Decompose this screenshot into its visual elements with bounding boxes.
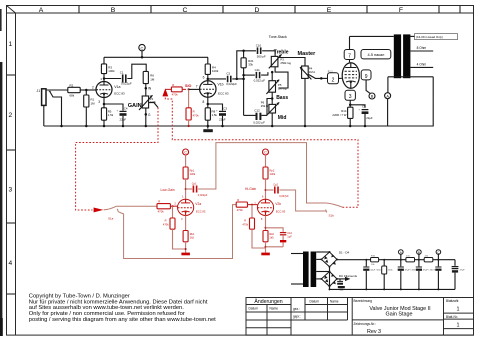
svg-text:R: R	[237, 198, 239, 202]
filter cap node B	[416, 260, 436, 291]
node C supply hi gain	[263, 149, 269, 167]
input jack J1	[37, 89, 47, 106]
svg-text:3: 3	[349, 94, 352, 100]
dropping resistor B-C	[424, 258, 433, 262]
svg-text:R: R	[172, 83, 174, 87]
svg-text:C: C	[264, 151, 267, 155]
svg-text:4-5 накал: 4-5 накал	[367, 53, 384, 57]
filter cap node A	[398, 260, 418, 291]
potentiometer Treble P3 250k log	[269, 54, 292, 68]
supply rail preamp	[104, 56, 208, 58]
svg-text:C5: C5	[362, 105, 366, 109]
resistor R4 100k	[205, 57, 219, 74]
svg-text:Blattzahl:: Blattzahl:	[446, 299, 459, 303]
svg-text:0,022µF: 0,022µF	[121, 82, 132, 86]
svg-text:9: 9	[365, 74, 368, 80]
red grid resistor hi gain 470k	[236, 198, 257, 212]
svg-text:Rp2: Rp2	[270, 168, 275, 172]
svg-text:Datum: Datum	[310, 300, 320, 304]
svg-text:7: 7	[196, 85, 198, 89]
svg-text:1M A: 1M A	[309, 70, 316, 74]
svg-text:Cp2: Cp2	[273, 182, 278, 186]
svg-text:Rk1: Rk1	[190, 232, 195, 236]
svg-text:R2: R2	[70, 83, 74, 87]
svg-text:Datum: Datum	[249, 307, 259, 311]
resistor R1 1M	[84, 90, 95, 126]
resistor R2 68k	[68, 83, 80, 97]
wire mid to ground	[271, 113, 273, 126]
svg-text:SIO: SIO	[185, 84, 191, 88]
capacitor C5 22uF cathode bypass	[350, 105, 373, 126]
svg-text:V1b: V1b	[218, 83, 224, 87]
secondary HV leads	[316, 251, 329, 253]
node B	[369, 93, 375, 99]
node IN	[145, 84, 147, 96]
svg-text:C2: C2	[226, 72, 230, 76]
dashed wire S1b output back to V1b grid	[165, 96, 358, 207]
red input arrow S1a	[94, 208, 104, 213]
svg-text:470k: 470k	[172, 93, 179, 97]
svg-text:33k: 33k	[248, 63, 253, 67]
resistor R5 1,5k cathode V1a	[101, 108, 113, 126]
resistor R8 1,5k cathode V1b	[205, 108, 217, 126]
svg-text:R: R	[244, 219, 246, 223]
svg-text:Blatt-Nr.:: Blatt-Nr.:	[446, 315, 459, 319]
svg-text:0,022 µF: 0,022 µF	[253, 121, 265, 125]
svg-text:470k: 470k	[193, 113, 200, 117]
svg-text:47µF: 47µF	[460, 270, 466, 272]
output transformer secondary winding	[403, 34, 410, 78]
svg-text:2: 2	[92, 85, 94, 89]
4 ohm tap	[410, 62, 433, 67]
svg-text:Rp1: Rp1	[190, 168, 195, 172]
red cathode resistor Rk1 1k5	[183, 216, 195, 253]
potentiometer Bass P5 1M log	[266, 80, 286, 94]
svg-text:Name: Name	[330, 300, 339, 304]
title block	[246, 298, 474, 336]
svg-text:F: F	[399, 7, 403, 14]
wire Rk2 to Ck2 bottom joint	[266, 246, 284, 248]
red coupling cap Cp1	[186, 181, 208, 196]
svg-text:Änderungen: Änderungen	[254, 298, 282, 305]
pin box 9 screen EL84	[358, 70, 371, 80]
triode V1a	[96, 82, 112, 98]
svg-text:ECC 83: ECC 83	[196, 210, 206, 214]
svg-text:GAIN: GAIN	[128, 103, 142, 109]
capacitor C11 0.022uF	[254, 68, 266, 83]
svg-text:gez.:: gez.:	[293, 307, 300, 311]
svg-text:Name: Name	[270, 307, 279, 311]
triode V2a 12AX7 low gain	[178, 199, 194, 215]
wire to C3	[208, 104, 223, 111]
svg-text:47µF / 450 V: 47µF / 450 V	[423, 270, 436, 272]
svg-text:ECC 83: ECC 83	[276, 210, 286, 214]
svg-text:1k5: 1k5	[269, 235, 274, 239]
svg-text:6: 6	[203, 76, 205, 80]
svg-text:C1: C1	[120, 70, 124, 74]
svg-text:DC Filaments: DC Filaments	[339, 274, 358, 278]
svg-text:100k: 100k	[212, 69, 219, 73]
svg-text:1,5k: 1,5k	[212, 113, 218, 117]
red ground low gain	[181, 253, 190, 256]
svg-text:C10: C10	[256, 43, 262, 47]
svg-text:Ck2: Ck2	[287, 231, 292, 235]
tone stack left rail	[237, 78, 244, 80]
resistor R21 33k	[241, 58, 254, 68]
PSU ground rail	[330, 288, 456, 290]
svg-text:470k: 470k	[242, 222, 248, 226]
chassis ground symbol under V1b	[203, 126, 213, 132]
frame column ticks	[79, 6, 460, 14]
svg-text:7: 7	[348, 53, 351, 59]
wire master bottom to ground	[304, 78, 306, 126]
svg-text:100k: 100k	[190, 172, 196, 176]
svg-text:22µF: 22µF	[120, 118, 127, 122]
svg-text:220R / 7 W: 220R / 7 W	[332, 113, 346, 117]
svg-text:0,022µF: 0,022µF	[226, 82, 237, 86]
potentiometer GAIN P2	[139, 95, 156, 110]
filter cap node C	[435, 260, 441, 291]
junction	[60, 125, 63, 128]
svg-text:100k: 100k	[108, 69, 115, 73]
svg-text:A: A	[39, 7, 44, 14]
capacitor C2 0.022uF	[226, 72, 237, 87]
svg-text:470k: 470k	[237, 208, 244, 212]
svg-text:1M log: 1M log	[278, 86, 287, 90]
wire S1a to low gain grid resistor	[116, 205, 157, 207]
cathode node V1b	[207, 97, 209, 108]
node A supply	[399, 250, 404, 261]
potentiometer Mid P6 25k lin	[261, 100, 279, 115]
svg-text:25k lin: 25k lin	[261, 104, 270, 108]
smoothing resistor R15	[371, 256, 379, 266]
red grid leak hi gain 470k	[242, 205, 265, 248]
resistor R14 220R/7W	[332, 107, 353, 126]
red return arrow into V1b grid	[162, 88, 168, 96]
svg-text:1,5k: 1,5k	[108, 113, 114, 117]
svg-text:68k: 68k	[70, 93, 75, 97]
svg-text:0,022 µF: 0,022 µF	[254, 79, 266, 83]
switch S1b	[326, 203, 343, 217]
wire jack tip to R2	[46, 89, 68, 91]
svg-text:2: 2	[332, 78, 335, 84]
svg-text:0,022µF: 0,022µF	[198, 193, 208, 197]
mains transformer winding 2	[311, 252, 317, 288]
svg-text:Master: Master	[298, 51, 317, 57]
svg-text:V2a: V2a	[195, 202, 201, 206]
pin box 3 cathode EL84	[345, 90, 355, 107]
red bypass cap Ck2	[266, 228, 293, 243]
svg-text:1µF: 1µF	[287, 234, 292, 238]
svg-text:R: R	[165, 219, 167, 223]
svg-text:S1a: S1a	[108, 217, 114, 221]
svg-text:B: B	[371, 95, 374, 99]
wire Cp1 to S1b throw1	[198, 143, 326, 203]
red coupling cap Cp2	[266, 182, 290, 197]
treble wiper to master	[278, 58, 305, 67]
svg-text:C3: C3	[223, 106, 227, 110]
svg-text:250k log: 250k log	[280, 61, 291, 65]
svg-text:22µF: 22µF	[366, 116, 373, 120]
svg-text:C11: C11	[255, 68, 260, 72]
pin box 7 plate EL84	[344, 36, 355, 62]
svg-text:470k: 470k	[158, 210, 165, 214]
frame column letters	[39, 7, 403, 14]
svg-text:Rk2: Rk2	[269, 232, 274, 236]
output transformer primary winding	[394, 34, 401, 78]
svg-text:R: R	[158, 200, 160, 204]
heater label box 4-5	[361, 50, 391, 59]
svg-text:1M: 1M	[150, 77, 155, 81]
svg-text:Bass: Bass	[276, 95, 288, 101]
red cathode resistor Rk2 1k5	[263, 216, 275, 253]
capacitor C4 22uF bypass	[117, 106, 128, 126]
dropping resistor A-B	[406, 258, 415, 262]
svg-text:8 Ohm: 8 Ohm	[417, 46, 427, 50]
scan edge artifact left	[0, 62, 2, 336]
svg-text:1: 1	[457, 307, 460, 313]
svg-text:D1 - D4: D1 - D4	[339, 251, 350, 255]
red grid resistor low gain 470k	[157, 200, 177, 214]
svg-text:(16-Ohm Head Only): (16-Ohm Head Only)	[416, 35, 443, 39]
svg-text:E: E	[327, 7, 332, 14]
svg-text:3: 3	[98, 100, 100, 104]
DC filament output arrow	[337, 277, 351, 281]
resistor R3 100k	[101, 57, 115, 73]
svg-text:C12: C12	[254, 108, 260, 112]
potentiometer Master P4 1M A	[300, 66, 315, 79]
svg-text:A: A	[400, 250, 402, 254]
switch S1a	[104, 206, 119, 220]
node B supply	[417, 250, 422, 261]
bridge rectifier D1-D4	[320, 251, 338, 268]
svg-text:4 Ohm: 4 Ohm	[417, 62, 427, 66]
copyright text block	[29, 294, 216, 323]
mains transformer winding 1	[303, 252, 309, 288]
svg-text:1: 1	[457, 323, 460, 329]
resistor R6 1M	[143, 71, 155, 83]
wire screen to node B	[366, 80, 370, 93]
svg-text:C: C	[183, 7, 188, 14]
wire S1a throw2 to hi gain bus	[118, 205, 236, 259]
16 ohm tap	[410, 34, 457, 40]
svg-text:0,047µF: 0,047µF	[279, 194, 289, 198]
wire C2 to tone stack input	[232, 51, 256, 79]
dashed wire GAIN wiper to switch S1a	[76, 108, 158, 211]
wire plate V1b to C2	[208, 78, 226, 80]
svg-text:B: B	[418, 250, 420, 254]
wire Cp2 to S1b throw2	[280, 190, 327, 211]
node C supply preamp	[139, 44, 145, 58]
svg-text:B: B	[111, 7, 116, 14]
cathode node V1a	[103, 98, 105, 108]
svg-text:Zeichnungs-Nr.:: Zeichnungs-Nr.:	[354, 322, 377, 326]
filter cap 1	[363, 259, 383, 291]
svg-text:ECC 83: ECC 83	[218, 92, 229, 96]
node C supply	[436, 250, 441, 261]
red ground hi gain	[261, 253, 270, 256]
speaker return wire	[388, 77, 434, 126]
ground bus wire	[44, 125, 433, 127]
svg-text:8: 8	[203, 100, 205, 104]
red series resistor R 470k before V1b grid	[165, 83, 186, 97]
bridge rectifier filaments	[320, 271, 338, 288]
capacitor C10 500pF treble	[256, 43, 266, 58]
svg-text:22µF: 22µF	[219, 118, 226, 122]
wire R2 to V1a grid	[80, 89, 96, 91]
wire C10 to treble pot	[262, 51, 275, 57]
pentode V2 EL84	[339, 63, 360, 89]
red plate resistor Rp2 100k	[263, 167, 276, 199]
svg-text:gepr.:: gepr.:	[293, 315, 301, 319]
svg-text:V1a: V1a	[114, 85, 120, 89]
wire plate V1b up to R4	[207, 74, 209, 81]
svg-text:4: 4	[8, 260, 12, 267]
svg-text:Rev 3: Rev 3	[367, 329, 381, 335]
svg-text:3: 3	[8, 187, 12, 194]
svg-text:posting / serving this diagram: posting / serving this diagram from any …	[29, 317, 216, 323]
node C supply low gain	[183, 149, 189, 167]
svg-text:ECC 83: ECC 83	[114, 92, 125, 96]
svg-text:470k: 470k	[163, 222, 169, 226]
frame row numbers	[8, 41, 12, 267]
master wiper to power tube grid	[308, 74, 321, 78]
red grid leak low gain 470k	[163, 206, 186, 249]
final filter cap	[452, 260, 466, 290]
svg-text:1k5: 1k5	[190, 235, 195, 239]
wire plate to C1	[104, 78, 121, 80]
wire plate to OT primary	[350, 35, 394, 37]
wiper GAIN	[149, 103, 158, 108]
wire SIO to V1b grid	[189, 88, 200, 90]
wire plate V1a up	[103, 74, 105, 82]
svg-text:Mid: Mid	[278, 115, 287, 121]
triode V1b	[200, 81, 216, 97]
node A	[385, 93, 391, 99]
wire C1 to R6	[127, 64, 146, 78]
capacitor C3 22uF bypass	[216, 106, 227, 126]
wire jack sleeve to ground	[43, 105, 45, 126]
svg-text:2: 2	[8, 112, 12, 119]
8 ohm tap	[410, 46, 433, 51]
svg-text:Bezeichnung: Bezeichnung	[354, 299, 373, 303]
svg-text:C: C	[141, 45, 144, 50]
svg-text:Tone-Stack: Tone-Stack	[269, 35, 287, 39]
B+ rail	[337, 259, 455, 261]
svg-text:Treble: Treble	[274, 49, 289, 55]
wire to C4	[104, 104, 123, 111]
svg-text:1: 1	[8, 41, 12, 48]
svg-text:J1: J1	[37, 89, 41, 93]
red grid leak R 470k at SIO	[186, 89, 199, 127]
bleeder resistor	[382, 259, 394, 291]
capacitor C1 0.022uF	[120, 70, 132, 85]
wire bass to mid	[271, 92, 273, 104]
secondary filament leads	[316, 271, 329, 273]
svg-text:Low-Gain: Low-Gain	[161, 188, 175, 192]
pin box 2 grid EL84	[328, 71, 339, 83]
routing box treble bottom / bass	[275, 67, 288, 88]
svg-text:C4: C4	[124, 106, 128, 110]
filament filter cap and ground	[337, 279, 345, 290]
svg-text:D: D	[255, 7, 260, 14]
node SIO	[185, 84, 191, 90]
red plate resistor Rp1 100k	[183, 167, 196, 199]
svg-text:Hi-Gain: Hi-Gain	[245, 187, 256, 191]
wire C11 into bass pot	[244, 74, 255, 76]
triode V2b 12AX7 hi gain	[257, 199, 273, 215]
mains transformer primary leads	[291, 253, 303, 255]
svg-text:Gain Stage: Gain Stage	[386, 312, 413, 318]
svg-text:100k: 100k	[270, 172, 276, 176]
svg-text:S1b: S1b	[329, 213, 335, 217]
node grid V1a	[85, 89, 88, 92]
wire C12	[244, 114, 256, 116]
svg-text:1M: 1M	[91, 101, 96, 105]
svg-text:C: C	[184, 151, 187, 155]
capacitor C12 0.022uF	[253, 108, 265, 124]
svg-text:V2b: V2b	[275, 202, 281, 206]
svg-text:500 pF: 500 pF	[257, 54, 266, 58]
node G	[145, 108, 147, 126]
frame row ticks	[7, 75, 16, 294]
wire OT primary bottom to node A	[388, 76, 433, 78]
svg-text:Cp1: Cp1	[192, 181, 197, 185]
